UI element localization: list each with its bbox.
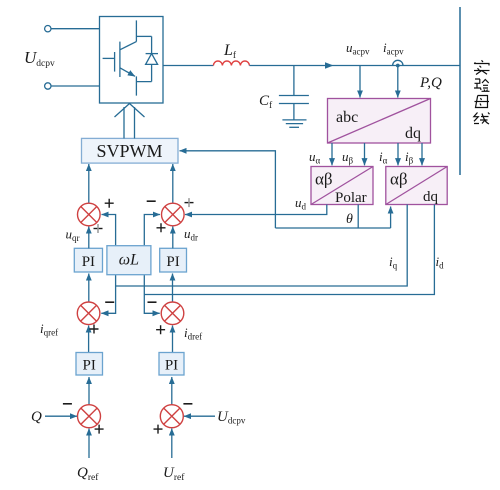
sum junction q (u_qr)	[78, 203, 101, 226]
wire sum U to PI	[171, 377, 173, 405]
sign + at sum Udc bottom	[154, 425, 163, 434]
wire inverter output	[163, 65, 213, 67]
svg-text:Lf: Lf	[223, 42, 237, 61]
PI block d-axis current	[160, 248, 187, 272]
wire bottom terminal to inverter	[51, 85, 100, 87]
sum junction Q	[78, 405, 101, 428]
svg-text:Udcpv: Udcpv	[217, 409, 246, 426]
svg-text:abc: abc	[336, 109, 358, 126]
ground	[282, 120, 306, 127]
svg-text:αβ: αβ	[390, 170, 408, 189]
svg-text:ωL: ωL	[119, 252, 139, 269]
svg-text:SVPWM: SVPWM	[96, 141, 162, 161]
svg-text:iα: iα	[379, 149, 388, 166]
sign - at sum Udc	[183, 403, 192, 405]
svg-text:P,Q: P,Q	[419, 75, 442, 91]
PI block Udc loop	[159, 353, 184, 376]
current sensor	[393, 60, 403, 65]
svg-text:ud: ud	[295, 195, 307, 212]
svg-text:Cf: Cf	[259, 93, 273, 111]
transistor Q1 (IGBT)	[103, 20, 152, 95]
wire u_beta	[364, 143, 366, 165]
wire sum q to SVPWM	[88, 164, 90, 203]
svg-text:θ: θ	[346, 212, 353, 227]
PI block q-axis current	[74, 248, 102, 272]
SVPWM block	[82, 138, 179, 163]
svg-text:idref: idref	[184, 325, 202, 342]
wire i_qref into sum qref	[88, 326, 90, 353]
DC source terminal top	[45, 26, 51, 32]
wire sum qref to PI	[88, 274, 90, 302]
wire omega-L output to sum d	[144, 215, 160, 246]
wire u_alpha	[331, 143, 333, 165]
svg-text:uacpv: uacpv	[346, 40, 370, 57]
wire Q_ref input	[88, 429, 90, 459]
svg-text:Q: Q	[31, 409, 42, 425]
current tap wire i_acpv	[397, 66, 399, 98]
wire PI to sum q	[88, 227, 90, 249]
PWM bus lines	[123, 107, 125, 138]
wire theta to SVPWM	[180, 151, 276, 228]
sum junction dref	[161, 302, 184, 325]
svg-text:Udcpv: Udcpv	[24, 48, 55, 69]
wire theta to dq block	[390, 207, 392, 229]
svg-text:id: id	[436, 254, 445, 271]
PI block Q loop	[76, 353, 103, 376]
sign + at sum d right	[185, 198, 194, 207]
alphabeta-dq block	[386, 167, 447, 205]
svg-text:Uref: Uref	[163, 465, 185, 483]
flow arrow on ac line	[325, 62, 334, 68]
svg-text:iacpv: iacpv	[383, 40, 404, 57]
sign - at sum dref	[148, 301, 157, 303]
omega-L block	[107, 246, 151, 275]
sum junction Udc	[160, 405, 183, 428]
svg-text:PI: PI	[165, 358, 178, 374]
svg-text:Qref: Qref	[77, 465, 99, 483]
diode D1 (freewheel)	[146, 36, 158, 81]
wire i_d into omega-L and sum dref	[144, 275, 159, 314]
svg-text:uα: uα	[309, 149, 321, 166]
wire sum dref to PI	[172, 274, 174, 302]
sign + at sum qref bottom	[90, 325, 99, 334]
bus line	[459, 7, 461, 175]
svg-text:PI: PI	[83, 358, 96, 374]
capacitor C_f	[279, 66, 309, 120]
wire sum d to SVPWM	[172, 164, 174, 203]
svg-text:iβ: iβ	[405, 149, 414, 166]
svg-text:PI: PI	[166, 254, 179, 270]
sign + at sum d bottom	[157, 223, 166, 232]
sign - at sum Q	[63, 403, 72, 405]
sign + at sum Q bottom	[95, 425, 104, 434]
svg-text:iq: iq	[389, 254, 398, 271]
svg-text:Polar: Polar	[335, 190, 367, 206]
DC source terminal bottom	[45, 83, 51, 89]
svg-text:udr: udr	[184, 226, 198, 243]
sign - at sum qref	[105, 301, 114, 303]
wire omega-L output to sum q	[102, 215, 116, 246]
wire PI to sum d	[172, 227, 174, 249]
svg-text:uqr: uqr	[66, 227, 80, 244]
wire u_d to sum junction d	[185, 205, 327, 215]
wire i_q into omega-L and sum qref	[101, 275, 115, 314]
sign - at sum d left	[147, 200, 156, 202]
svg-text:PI: PI	[82, 254, 95, 270]
sum junction qref	[77, 302, 100, 325]
wire top terminal to inverter	[51, 28, 100, 30]
svg-text:αβ: αβ	[315, 170, 333, 189]
alphabeta-Polar block	[311, 167, 373, 205]
voltage tap wire u_acpv	[359, 66, 361, 98]
svg-text:dq: dq	[423, 189, 439, 205]
wire sum Q to PI	[88, 377, 90, 405]
sign + at sum q right	[105, 199, 114, 208]
wire i_d	[144, 205, 434, 295]
abc-dq transform block	[328, 99, 431, 144]
wire i_q	[116, 205, 408, 287]
sign + at sum q bottom	[94, 224, 103, 233]
wire i_alpha	[397, 143, 399, 165]
sign + at sum dref bottom	[156, 325, 165, 334]
label experiment bus (hand drawn CJK 实验母线)	[474, 60, 490, 124]
wire U_ref input	[171, 429, 173, 459]
PWM bus arrowhead	[115, 104, 145, 118]
wire Q input	[45, 415, 77, 417]
wire Lf to bus	[249, 65, 460, 67]
wire i_beta	[421, 143, 423, 165]
wire theta from Polar	[357, 205, 359, 229]
wire theta horizontal	[275, 227, 390, 229]
sum junction d (u_dr)	[162, 203, 185, 226]
svg-text:uβ: uβ	[342, 149, 354, 166]
wire U_dcpv input	[184, 415, 215, 417]
wire i_dref into sum dref	[172, 326, 174, 353]
inductor L_f	[213, 61, 249, 66]
inverter bridge box	[100, 17, 164, 104]
svg-text:dq: dq	[405, 125, 421, 142]
svg-text:iqref: iqref	[40, 321, 58, 338]
